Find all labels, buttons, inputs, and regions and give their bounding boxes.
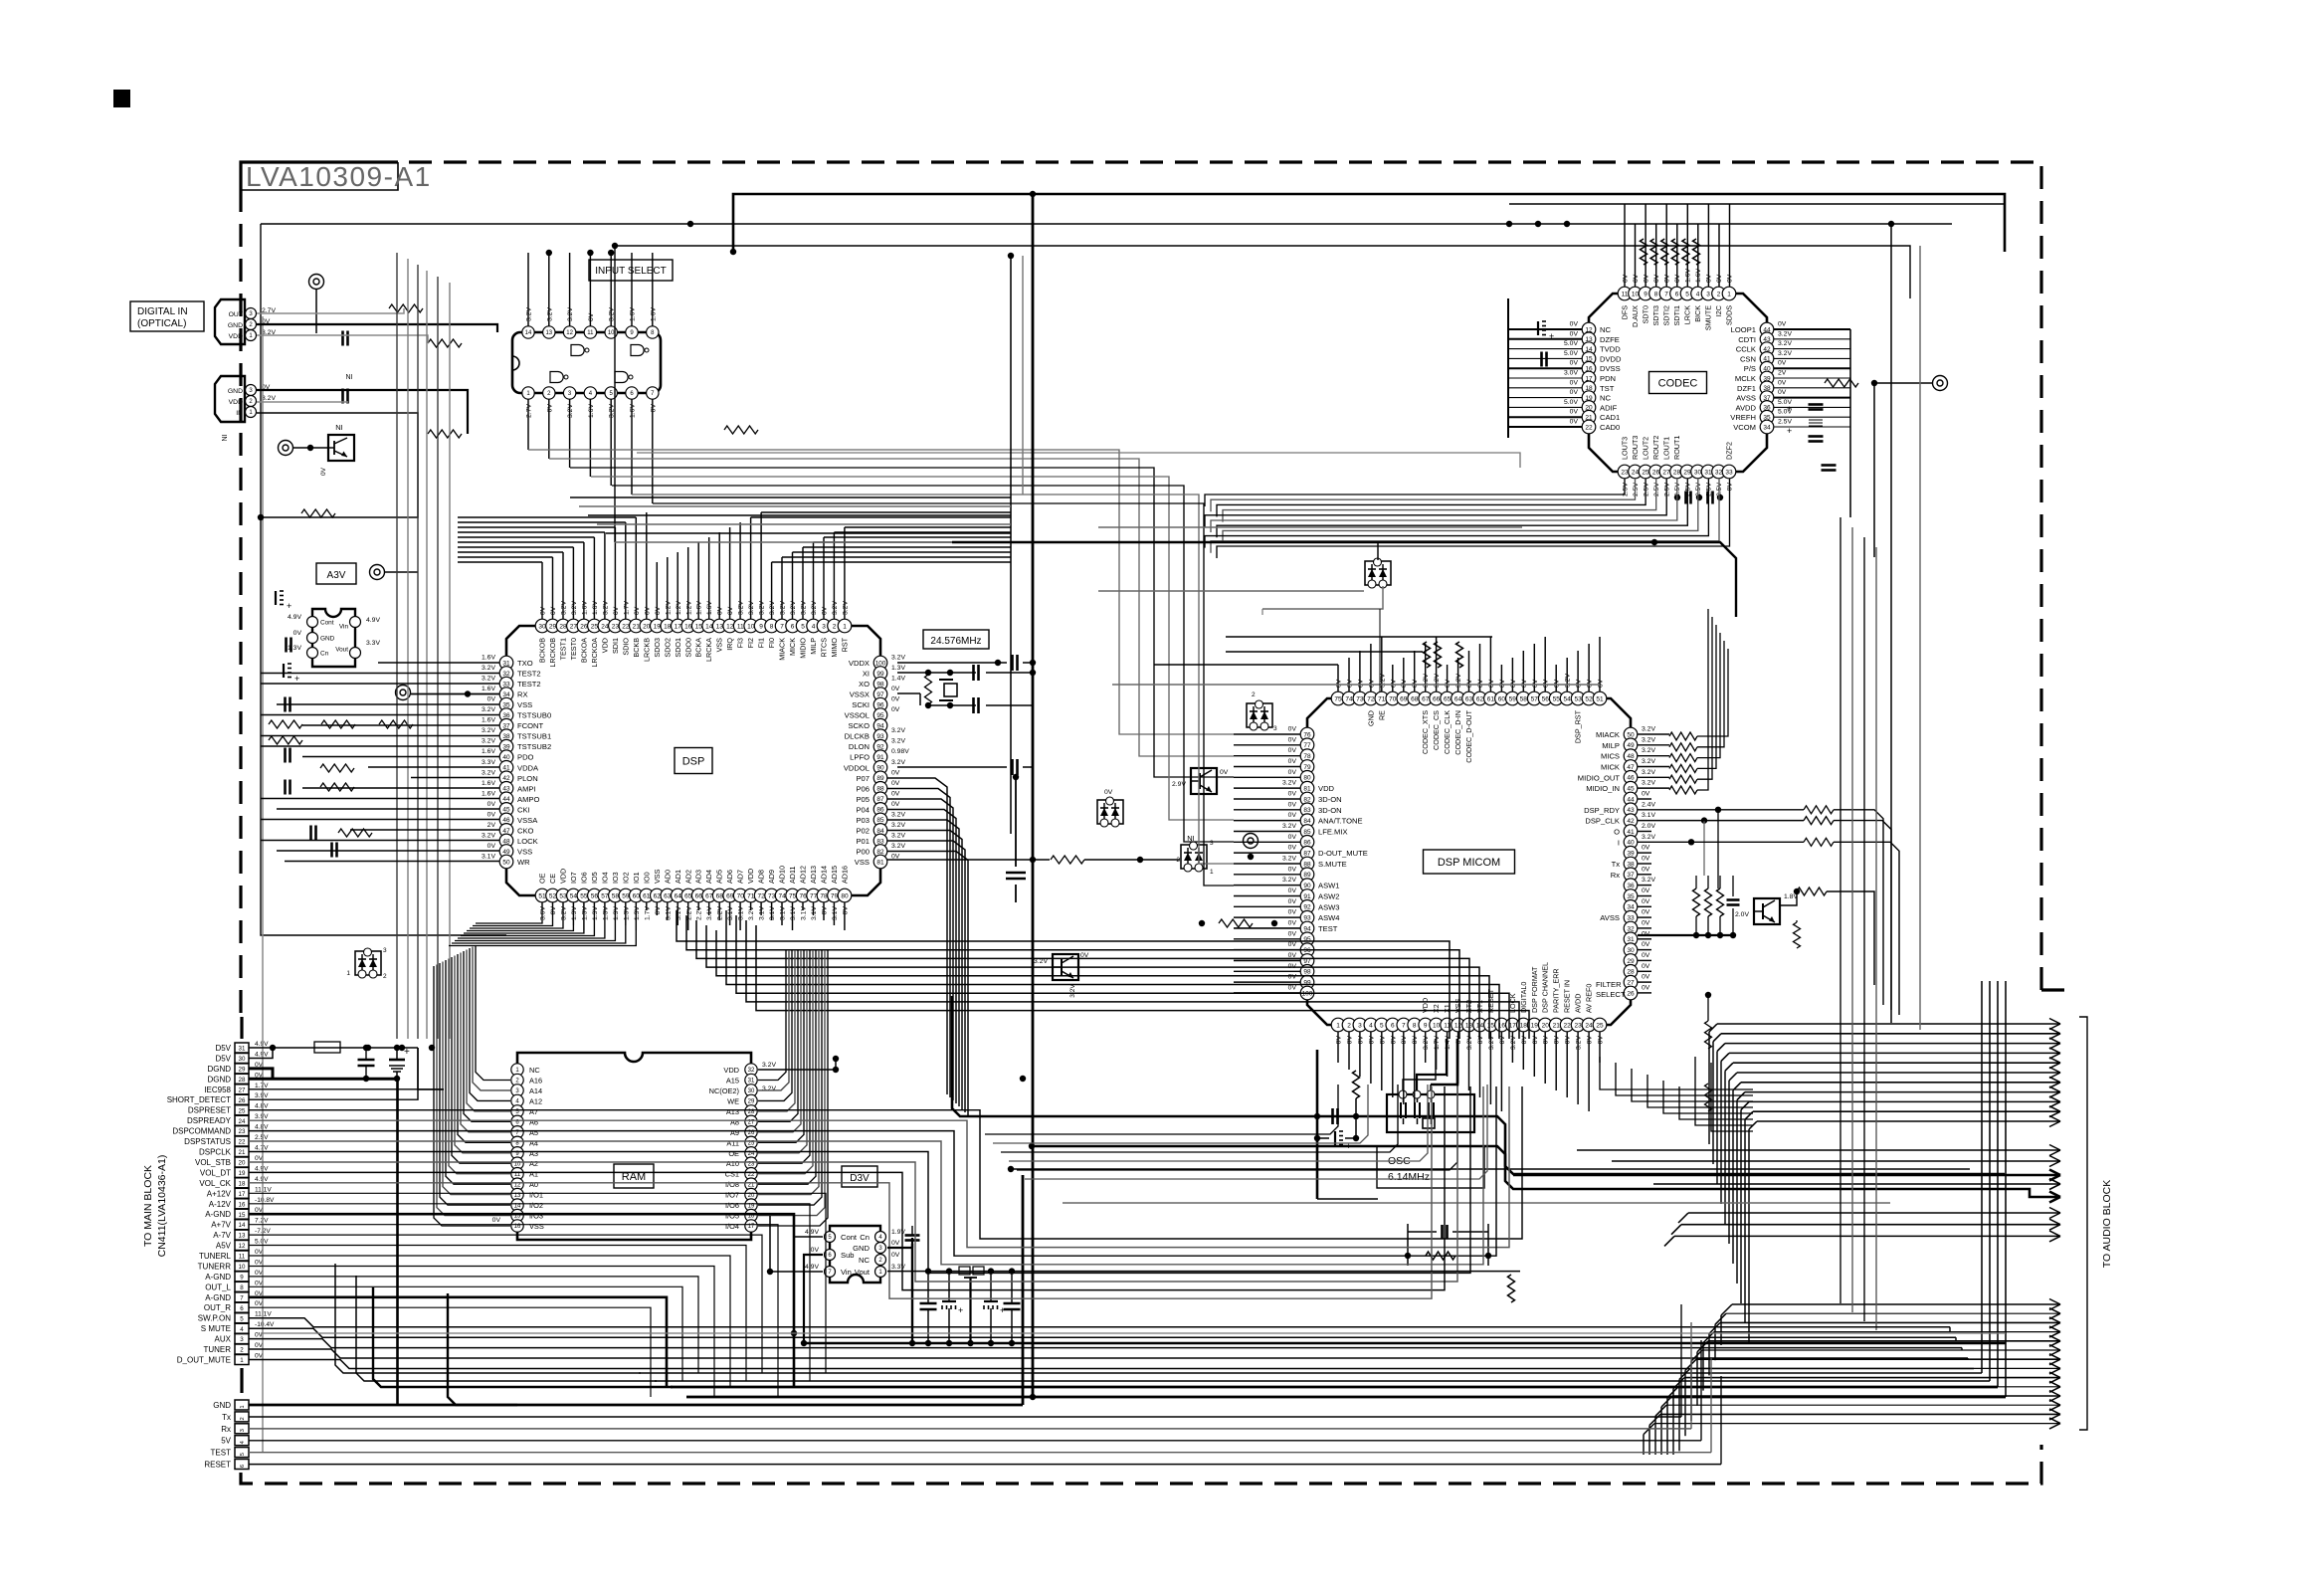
svg-text:DSP_CLK: DSP_CLK bbox=[1585, 817, 1620, 826]
wire thick mid vertical trunk bbox=[1032, 194, 1035, 1397]
svg-text:25: 25 bbox=[1596, 1022, 1604, 1029]
svg-text:SMUTE: SMUTE bbox=[1704, 305, 1713, 330]
svg-text:I/O1: I/O1 bbox=[529, 1191, 543, 1200]
svg-text:5.0V: 5.0V bbox=[1564, 399, 1578, 406]
svg-text:61: 61 bbox=[1487, 695, 1495, 702]
svg-text:0V: 0V bbox=[644, 606, 651, 615]
svg-text:3.1V: 3.1V bbox=[811, 906, 818, 920]
svg-text:0V: 0V bbox=[1778, 360, 1787, 367]
svg-text:0V: 0V bbox=[1543, 679, 1550, 688]
svg-text:0V: 0V bbox=[1104, 789, 1113, 796]
svg-text:3.2V: 3.2V bbox=[561, 906, 568, 920]
svg-text:0V: 0V bbox=[1412, 679, 1419, 688]
svg-text:IO1: IO1 bbox=[632, 872, 641, 884]
svg-text:PDN: PDN bbox=[1600, 374, 1616, 383]
svg-text:8: 8 bbox=[240, 1284, 244, 1291]
svg-text:0V: 0V bbox=[891, 686, 900, 692]
svg-text:3.2V: 3.2V bbox=[482, 769, 495, 776]
svg-text:4: 4 bbox=[240, 1326, 244, 1333]
wire mid vertical 2 bbox=[1010, 256, 1012, 834]
svg-text:0V: 0V bbox=[1336, 1036, 1343, 1045]
svg-text:VDDX: VDDX bbox=[849, 659, 870, 668]
svg-text:AD6: AD6 bbox=[725, 870, 734, 884]
svg-text:88: 88 bbox=[1303, 861, 1311, 868]
svg-text:AVSS: AVSS bbox=[1736, 394, 1756, 403]
svg-text:5.0V: 5.0V bbox=[1564, 340, 1578, 347]
svg-text:A-12V: A-12V bbox=[209, 1200, 232, 1209]
wire thick rail above micom bbox=[952, 542, 1736, 617]
svg-text:DSPREADY: DSPREADY bbox=[187, 1116, 232, 1125]
svg-text:RTCS: RTCS bbox=[820, 638, 829, 658]
svg-text:11: 11 bbox=[1622, 291, 1629, 297]
svg-text:10: 10 bbox=[608, 330, 615, 336]
svg-text:0V: 0V bbox=[1379, 1036, 1386, 1045]
svg-text:3.2V: 3.2V bbox=[801, 601, 808, 615]
svg-text:ROUT2: ROUT2 bbox=[1651, 436, 1660, 460]
arrow thick single 1203 bbox=[1950, 1189, 2060, 1197]
svg-text:LOUT1: LOUT1 bbox=[1662, 437, 1671, 460]
ceramic resonator OSC X2 bbox=[1387, 1094, 1474, 1132]
svg-text:PDO: PDO bbox=[517, 753, 534, 762]
svg-text:(OPTICAL): (OPTICAL) bbox=[137, 318, 186, 329]
svg-text:13: 13 bbox=[716, 623, 724, 630]
svg-text:Tx: Tx bbox=[1612, 860, 1621, 869]
svg-text:0V: 0V bbox=[1466, 679, 1473, 688]
svg-text:A+12V: A+12V bbox=[207, 1189, 232, 1198]
svg-text:RX: RX bbox=[517, 691, 528, 699]
svg-text:3.2V: 3.2V bbox=[482, 738, 495, 745]
svg-text:0V: 0V bbox=[891, 801, 900, 808]
svg-text:SELECT: SELECT bbox=[1596, 990, 1626, 999]
svg-text:AD13: AD13 bbox=[809, 866, 818, 884]
svg-text:51: 51 bbox=[538, 892, 546, 899]
svg-text:2: 2 bbox=[833, 623, 837, 630]
svg-text:A5V: A5V bbox=[216, 1242, 232, 1251]
svg-text:3.2V: 3.2V bbox=[748, 601, 755, 615]
svg-text:73: 73 bbox=[1356, 695, 1364, 702]
svg-text:1.6V: 1.6V bbox=[696, 601, 703, 615]
svg-text:2.2V: 2.2V bbox=[717, 906, 724, 920]
svg-text:75: 75 bbox=[1334, 695, 1342, 702]
svg-text:3.3V: 3.3V bbox=[891, 1264, 905, 1271]
svg-text:1.6V: 1.6V bbox=[588, 404, 595, 418]
svg-text:1.6V: 1.6V bbox=[482, 686, 495, 692]
svg-text:0V: 0V bbox=[891, 1252, 900, 1259]
svg-text:3: 3 bbox=[1210, 840, 1214, 847]
IC A3V regulator bbox=[312, 609, 355, 667]
wire top horizontal rail 1 bbox=[733, 194, 2005, 252]
svg-text:3D-ON: 3D-ON bbox=[1318, 795, 1342, 804]
svg-text:BCKOB: BCKOB bbox=[538, 638, 547, 663]
svg-text:4: 4 bbox=[1696, 291, 1700, 297]
svg-text:72: 72 bbox=[1367, 695, 1375, 702]
svg-text:A14: A14 bbox=[529, 1086, 542, 1095]
svg-text:65: 65 bbox=[1444, 695, 1452, 702]
title box LVA10309-A1 bbox=[241, 162, 398, 190]
wire vertical through-lines right bbox=[1981, 981, 1983, 1373]
svg-text:0V: 0V bbox=[613, 606, 620, 615]
svg-text:26: 26 bbox=[239, 1097, 246, 1104]
svg-text:3.2V: 3.2V bbox=[891, 727, 905, 734]
wire DSP_RDY taps bbox=[1717, 810, 1719, 889]
svg-text:93: 93 bbox=[1303, 915, 1311, 922]
svg-text:0V: 0V bbox=[1347, 1036, 1354, 1045]
svg-text:VSSA: VSSA bbox=[517, 816, 538, 825]
svg-text:FCONT: FCONT bbox=[517, 721, 544, 730]
svg-text:CODEC: CODEC bbox=[1658, 377, 1698, 389]
svg-text:3.2V: 3.2V bbox=[482, 832, 495, 839]
svg-text:8: 8 bbox=[770, 623, 774, 630]
svg-text:9: 9 bbox=[759, 623, 763, 630]
fuse pair small bbox=[959, 1267, 970, 1275]
svg-text:0V: 0V bbox=[1554, 679, 1561, 688]
test point near optical transistor bbox=[279, 441, 293, 456]
svg-text:SDO3: SDO3 bbox=[653, 638, 662, 658]
svg-text:3.2V: 3.2V bbox=[482, 676, 495, 683]
svg-text:I/O8: I/O8 bbox=[725, 1180, 739, 1189]
svg-text:Cn: Cn bbox=[320, 651, 329, 658]
resistor near MICOM TEST pin bbox=[1219, 919, 1253, 927]
svg-text:1.9V: 1.9V bbox=[891, 1229, 905, 1236]
svg-text:1.6V: 1.6V bbox=[482, 655, 495, 662]
svg-text:89: 89 bbox=[1303, 872, 1311, 879]
svg-text:0V: 0V bbox=[1288, 845, 1297, 852]
svg-text:62: 62 bbox=[654, 892, 662, 899]
svg-text:DLCKB: DLCKB bbox=[845, 732, 870, 741]
svg-text:IO3: IO3 bbox=[611, 872, 620, 884]
svg-text:3.2V: 3.2V bbox=[482, 706, 495, 713]
wire left vertical bends into buses bbox=[335, 1264, 641, 1373]
svg-text:60: 60 bbox=[633, 892, 641, 899]
svg-text:22: 22 bbox=[622, 623, 630, 630]
svg-text:0V: 0V bbox=[1570, 330, 1579, 337]
svg-text:VSS: VSS bbox=[855, 858, 870, 867]
svg-text:12: 12 bbox=[566, 330, 573, 336]
svg-text:3.2V: 3.2V bbox=[546, 307, 553, 321]
svg-text:DGND: DGND bbox=[207, 1065, 231, 1074]
svg-text:AUX: AUX bbox=[215, 1335, 232, 1344]
svg-text:22: 22 bbox=[1563, 1022, 1571, 1029]
svg-text:A-GND: A-GND bbox=[205, 1273, 231, 1282]
svg-text:VDD: VDD bbox=[229, 333, 243, 340]
svg-text:PARITY_ERR: PARITY_ERR bbox=[1552, 968, 1561, 1013]
svg-text:66: 66 bbox=[695, 892, 703, 899]
svg-text:SDDS: SDDS bbox=[1725, 305, 1734, 325]
cap near DSP VDDX bbox=[1011, 655, 1014, 671]
svg-text:0V: 0V bbox=[1288, 801, 1297, 808]
svg-text:54: 54 bbox=[570, 892, 578, 899]
svg-text:2.5V: 2.5V bbox=[1664, 483, 1671, 496]
wire D3V connections bbox=[794, 1237, 823, 1333]
cap near DSP LPFO bbox=[1011, 759, 1014, 775]
svg-text:3.1V: 3.1V bbox=[727, 906, 734, 920]
test point mid bbox=[1244, 834, 1259, 849]
dual diode D NI mid bbox=[1181, 845, 1207, 869]
svg-text:87: 87 bbox=[1303, 851, 1311, 858]
svg-text:A0: A0 bbox=[529, 1180, 538, 1189]
IC D3V regulator bbox=[830, 1226, 880, 1283]
svg-text:P04: P04 bbox=[856, 805, 870, 814]
thick rail below D3V bbox=[802, 1342, 2006, 1345]
svg-text:76: 76 bbox=[1303, 731, 1311, 738]
svg-text:0V: 0V bbox=[1288, 812, 1297, 819]
svg-text:2V: 2V bbox=[1778, 370, 1787, 377]
bracket TO AUDIO BLOCK bbox=[2079, 1017, 2087, 1430]
wire thin bus mid 3 bbox=[1011, 1168, 1970, 1170]
svg-text:0V: 0V bbox=[1642, 791, 1650, 798]
svg-text:99: 99 bbox=[1303, 980, 1311, 987]
svg-text:WE: WE bbox=[727, 1096, 739, 1105]
svg-text:0V: 0V bbox=[1570, 409, 1579, 416]
svg-text:NC(OE2): NC(OE2) bbox=[709, 1086, 739, 1095]
wire IEC958 and SHORT_DETECT bbox=[249, 1088, 444, 1090]
svg-text:4.9V: 4.9V bbox=[255, 1176, 269, 1183]
svg-text:3.2V: 3.2V bbox=[832, 601, 839, 615]
svg-text:0V: 0V bbox=[1288, 985, 1297, 992]
svg-text:LOUT2: LOUT2 bbox=[1642, 437, 1650, 460]
svg-text:DSPRESET: DSPRESET bbox=[188, 1106, 231, 1115]
IC CODEC 44-pin QFP bbox=[1589, 294, 1767, 472]
svg-text:MCLK: MCLK bbox=[1735, 374, 1756, 383]
svg-text:60: 60 bbox=[1498, 695, 1506, 702]
svg-text:3.1V: 3.1V bbox=[482, 854, 495, 861]
svg-text:3: 3 bbox=[1358, 1022, 1362, 1029]
svg-text:3.2V: 3.2V bbox=[1778, 330, 1792, 337]
wire stair bundle DSP to right bbox=[677, 910, 1450, 1039]
svg-text:2.5V: 2.5V bbox=[1644, 483, 1650, 496]
svg-text:0V: 0V bbox=[1778, 379, 1787, 386]
svg-text:0V: 0V bbox=[1570, 419, 1579, 426]
svg-text:0V: 0V bbox=[1288, 758, 1297, 765]
svg-text:0V: 0V bbox=[1288, 909, 1297, 916]
svg-text:IO4: IO4 bbox=[600, 872, 609, 884]
svg-text:DSP MICOM: DSP MICOM bbox=[1438, 857, 1500, 869]
svg-text:VSSOL: VSSOL bbox=[845, 711, 870, 720]
svg-text:CS1: CS1 bbox=[725, 1170, 739, 1179]
svg-text:37: 37 bbox=[1627, 872, 1635, 879]
svg-text:3.2V: 3.2V bbox=[1423, 674, 1430, 688]
svg-text:3: 3 bbox=[1273, 725, 1277, 732]
svg-text:AD5: AD5 bbox=[715, 870, 724, 884]
svg-text:0V: 0V bbox=[1499, 679, 1506, 688]
svg-text:VDDA: VDDA bbox=[517, 763, 539, 772]
svg-text:3.2V: 3.2V bbox=[1423, 1036, 1430, 1050]
svg-text:P02: P02 bbox=[856, 826, 870, 835]
IC input select gate package bbox=[512, 332, 661, 393]
svg-text:2.5V: 2.5V bbox=[255, 1134, 269, 1141]
svg-text:0V: 0V bbox=[1288, 726, 1297, 733]
svg-text:7: 7 bbox=[240, 1294, 244, 1301]
svg-text:69: 69 bbox=[1400, 695, 1408, 702]
svg-text:62: 62 bbox=[1476, 695, 1484, 702]
svg-text:3.2V: 3.2V bbox=[262, 395, 276, 402]
svg-text:0V: 0V bbox=[1521, 679, 1528, 688]
svg-text:0V: 0V bbox=[1623, 274, 1630, 283]
svg-text:81: 81 bbox=[1303, 786, 1311, 793]
svg-text:30: 30 bbox=[1627, 947, 1635, 954]
svg-text:Vout: Vout bbox=[335, 647, 348, 654]
svg-text:0V: 0V bbox=[1642, 866, 1650, 873]
svg-text:4.9V: 4.9V bbox=[805, 1229, 819, 1236]
svg-text:0V: 0V bbox=[487, 696, 496, 703]
svg-text:-10.8V: -10.8V bbox=[255, 1197, 275, 1204]
svg-text:TO AUDIO BLOCK: TO AUDIO BLOCK bbox=[2101, 1180, 2113, 1269]
svg-text:I2C: I2C bbox=[1714, 305, 1723, 316]
svg-text:P/S: P/S bbox=[1744, 364, 1756, 373]
svg-text:0V: 0V bbox=[1598, 679, 1605, 688]
svg-text:3.2V: 3.2V bbox=[762, 1062, 776, 1069]
svg-text:D_OUT_MUTE: D_OUT_MUTE bbox=[177, 1356, 231, 1365]
svg-text:X2: X2 bbox=[1432, 1004, 1441, 1013]
svg-text:79: 79 bbox=[1303, 764, 1311, 771]
svg-text:71: 71 bbox=[1378, 695, 1386, 702]
svg-text:21: 21 bbox=[1553, 1022, 1561, 1029]
wire right verticals bundle bbox=[1840, 517, 1841, 1303]
svg-text:0V: 0V bbox=[1477, 1036, 1484, 1045]
svg-text:0V: 0V bbox=[1642, 898, 1650, 905]
wire codec right leads bbox=[1774, 328, 1850, 330]
svg-text:0V: 0V bbox=[1288, 930, 1297, 937]
svg-text:BICK: BICK bbox=[1693, 305, 1702, 322]
page corner marker bbox=[113, 90, 130, 107]
wire analog stair bbox=[249, 1193, 826, 1373]
svg-text:3.2V: 3.2V bbox=[780, 601, 787, 615]
svg-text:1.6V: 1.6V bbox=[630, 404, 637, 418]
svg-text:AD14: AD14 bbox=[820, 866, 829, 884]
svg-text:P06: P06 bbox=[856, 784, 870, 793]
svg-text:15: 15 bbox=[239, 1212, 246, 1219]
svg-text:3.2V: 3.2V bbox=[759, 601, 766, 615]
caps near optical in bbox=[341, 331, 344, 346]
svg-text:77: 77 bbox=[1303, 742, 1311, 749]
IC DSP 100-pin QFP bbox=[506, 626, 880, 895]
svg-text:27: 27 bbox=[1662, 469, 1670, 476]
svg-text:9: 9 bbox=[1644, 291, 1647, 297]
dual diode D below DSP left bbox=[355, 951, 381, 975]
svg-text:TXO: TXO bbox=[517, 659, 533, 668]
svg-text:1.6V: 1.6V bbox=[581, 601, 588, 615]
svg-text:29: 29 bbox=[748, 1099, 755, 1105]
svg-text:AD9: AD9 bbox=[767, 870, 776, 884]
svg-text:41: 41 bbox=[1627, 829, 1635, 836]
svg-text:SDTI3: SDTI3 bbox=[1651, 305, 1660, 325]
svg-text:0V: 0V bbox=[1368, 1036, 1375, 1045]
svg-text:BCKB: BCKB bbox=[632, 638, 641, 658]
svg-text:ASW2: ASW2 bbox=[1318, 892, 1340, 901]
svg-text:CODEC_D-IN: CODEC_D-IN bbox=[1453, 710, 1462, 755]
svg-text:0V: 0V bbox=[1642, 888, 1650, 894]
wire bottom long buses bbox=[639, 1372, 1982, 1374]
svg-text:4.9V: 4.9V bbox=[255, 1165, 269, 1172]
wire gray bus mid 4 bbox=[1063, 1202, 1890, 1204]
svg-text:VOL_STB: VOL_STB bbox=[195, 1158, 231, 1167]
svg-text:18: 18 bbox=[239, 1180, 246, 1187]
svg-text:TST: TST bbox=[1600, 384, 1615, 393]
svg-text:FI1: FI1 bbox=[757, 638, 766, 648]
svg-text:21: 21 bbox=[633, 623, 641, 630]
svg-text:12: 12 bbox=[239, 1243, 246, 1250]
svg-text:3D-ON: 3D-ON bbox=[1318, 806, 1342, 815]
passives right of MICOM bbox=[1693, 889, 1700, 916]
svg-text:VREFH: VREFH bbox=[1730, 413, 1756, 422]
test point right of codec bbox=[1933, 376, 1948, 391]
svg-text:MIDIO_OUT: MIDIO_OUT bbox=[1578, 773, 1621, 782]
svg-text:26: 26 bbox=[1652, 469, 1660, 476]
svg-text:50: 50 bbox=[1627, 731, 1635, 738]
svg-text:9: 9 bbox=[1424, 1022, 1428, 1029]
svg-text:A-7V: A-7V bbox=[213, 1231, 231, 1240]
svg-text:0V: 0V bbox=[550, 606, 557, 615]
svg-text:Rx: Rx bbox=[221, 1425, 231, 1434]
svg-text:TEST: TEST bbox=[1318, 924, 1338, 933]
dual diode D at micom top bbox=[1365, 561, 1391, 585]
cap middle below VDDOL bbox=[1006, 872, 1026, 875]
svg-text:A3V: A3V bbox=[327, 570, 346, 581]
svg-text:75: 75 bbox=[789, 892, 797, 899]
svg-text:3.2V: 3.2V bbox=[1282, 856, 1296, 863]
svg-text:TEST: TEST bbox=[211, 1449, 232, 1458]
svg-text:LRCKOB: LRCKOB bbox=[548, 638, 557, 668]
svg-text:VSS: VSS bbox=[517, 848, 532, 857]
wire DSP VSS lead bbox=[887, 859, 1050, 861]
svg-text:ANA/T.TONE: ANA/T.TONE bbox=[1318, 817, 1363, 826]
wire thick bus mid 2 bbox=[1032, 1146, 1950, 1189]
svg-text:22: 22 bbox=[1585, 424, 1593, 431]
svg-text:TUNERR: TUNERR bbox=[198, 1263, 232, 1272]
svg-text:3.1V: 3.1V bbox=[665, 906, 672, 920]
svg-text:CKO: CKO bbox=[517, 826, 534, 835]
svg-text:AVDD: AVDD bbox=[1574, 994, 1583, 1013]
svg-text:TVDD: TVDD bbox=[1600, 345, 1621, 354]
svg-text:27: 27 bbox=[1627, 980, 1635, 987]
svg-text:32: 32 bbox=[1627, 925, 1635, 932]
svg-text:3.2V: 3.2V bbox=[1642, 780, 1655, 787]
svg-text:0V: 0V bbox=[1570, 360, 1579, 367]
svg-text:VDDOL: VDDOL bbox=[844, 763, 870, 772]
svg-text:0V: 0V bbox=[891, 696, 900, 703]
svg-text:6: 6 bbox=[240, 1305, 244, 1312]
svg-text:3.2V: 3.2V bbox=[1282, 877, 1296, 884]
svg-text:48: 48 bbox=[1627, 753, 1635, 760]
svg-text:78: 78 bbox=[820, 892, 828, 899]
svg-text:61: 61 bbox=[643, 892, 651, 899]
svg-text:Cont: Cont bbox=[841, 1233, 858, 1242]
svg-text:15: 15 bbox=[695, 623, 703, 630]
svg-text:49: 49 bbox=[1627, 742, 1635, 749]
A3V support parts bbox=[285, 638, 288, 653]
svg-text:78: 78 bbox=[1303, 753, 1311, 760]
svg-text:0V: 0V bbox=[1288, 941, 1297, 948]
svg-text:0V: 0V bbox=[1521, 1036, 1528, 1045]
svg-text:0V: 0V bbox=[1778, 321, 1787, 328]
wire codec right verticals bbox=[1849, 329, 1851, 517]
svg-text:3.2V: 3.2V bbox=[1642, 736, 1655, 743]
wire thick bus mid 1 bbox=[952, 996, 2005, 1174]
svg-text:79: 79 bbox=[831, 892, 839, 899]
svg-text:3.2V: 3.2V bbox=[1642, 726, 1655, 733]
svg-text:0V: 0V bbox=[1543, 1036, 1550, 1045]
svg-text:32: 32 bbox=[748, 1068, 755, 1074]
svg-text:67: 67 bbox=[705, 892, 713, 899]
svg-text:D.AUX: D.AUX bbox=[1631, 305, 1640, 327]
svg-text:0V: 0V bbox=[1642, 941, 1650, 948]
svg-text:3.1V: 3.1V bbox=[1642, 812, 1655, 819]
svg-text:3.1V: 3.1V bbox=[790, 906, 797, 920]
svg-text:1: 1 bbox=[346, 970, 350, 977]
svg-text:80: 80 bbox=[841, 892, 849, 899]
wire OSC trunk bbox=[1317, 1198, 1378, 1200]
svg-text:4.9V: 4.9V bbox=[255, 1041, 269, 1048]
